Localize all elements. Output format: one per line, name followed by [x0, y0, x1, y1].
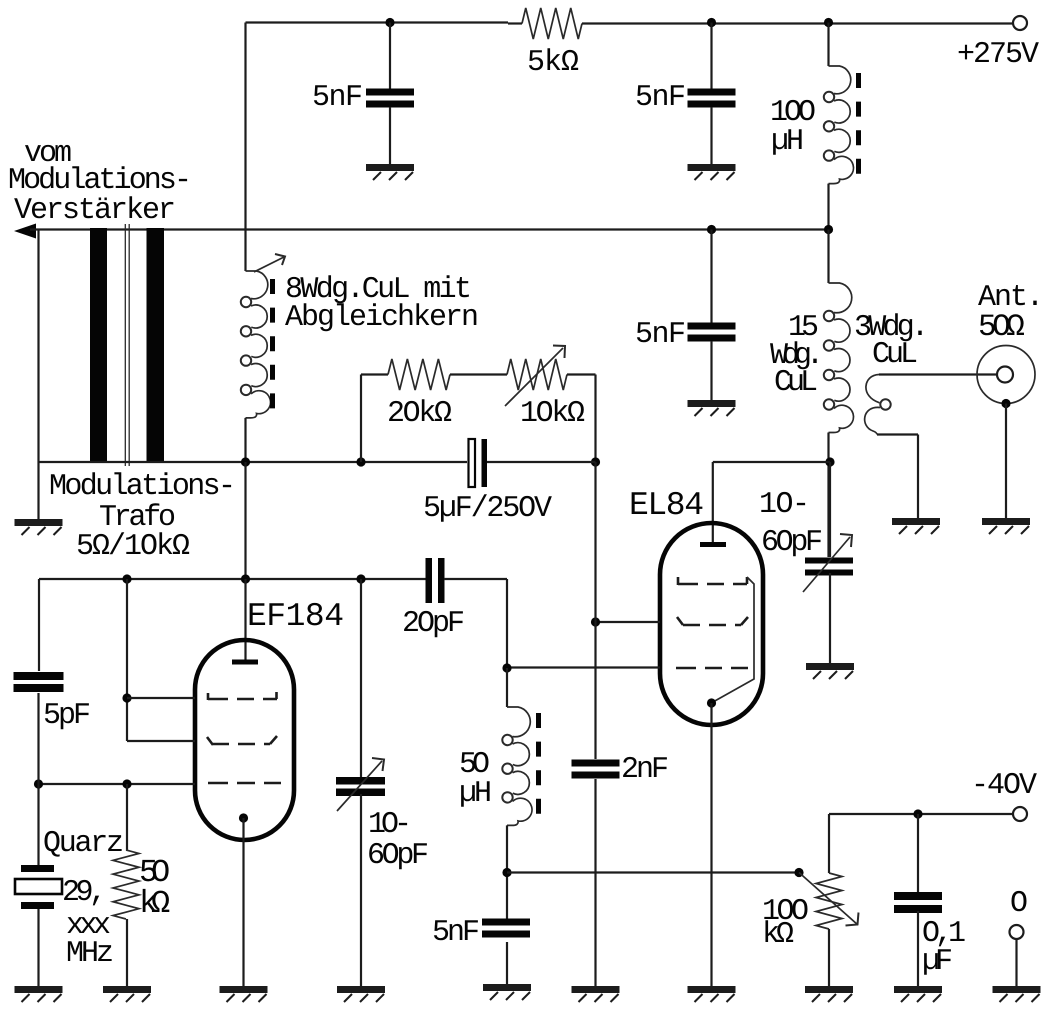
- ground below transformer left: [15, 523, 63, 536]
- capacitor C6 20pF (vertical plates): [426, 558, 433, 603]
- trimmer C8 arrow: [803, 537, 850, 592]
- wire top rail resistor leads: [508, 22, 522, 24]
- ground below C3: [688, 404, 736, 417]
- svg-text:5nF: 5nF: [432, 916, 480, 950]
- ground below C10: [483, 988, 531, 1001]
- EF184 cathode node: [239, 813, 248, 822]
- node junction rail/127: [122, 574, 131, 583]
- svg-text:2OkΩ: 2OkΩ: [387, 397, 452, 431]
- wire 20k left lead: [361, 373, 388, 375]
- svg-text:µF: µF: [922, 945, 953, 979]
- wire trimmer C8 to ground: [829, 573, 831, 666]
- ground below 2nF: [572, 990, 620, 1003]
- capacitor C2 5nF: [688, 89, 736, 96]
- wire EL84 anode up and right: [712, 462, 714, 544]
- wire 15Wdg top lead: [827, 230, 829, 284]
- inductor L2 8Wdg.CuL: [246, 271, 268, 299]
- wire 5nF C2 bottom lead: [710, 107, 712, 166]
- wire transformer line to EF184 anode rail: [244, 462, 246, 579]
- EL84 grid g3 (top dashes with ticks): [678, 577, 747, 585]
- capacitor C11 0.1uF: [894, 892, 942, 900]
- wire EF184 anode down into tube: [244, 579, 246, 660]
- node junction EL84 anode / 15Wdg: [825, 457, 834, 466]
- EL84 cathode node: [707, 698, 716, 707]
- EL84 grid stub g2 line: [507, 666, 660, 668]
- EL84 grid stub g1: [596, 621, 661, 623]
- wire 5nF C2 top lead: [710, 23, 712, 90]
- node junction 10k branch / bottom line: [591, 457, 600, 466]
- transformer TR1 right winding (solid bar): [147, 228, 165, 463]
- inductor L5 50uH: [507, 707, 530, 737]
- terminal 0: [1010, 925, 1024, 939]
- svg-text:µH: µH: [459, 777, 492, 811]
- wire 3Wdg bottom lead: [877, 433, 918, 435]
- EF184 grid stub upper: [127, 697, 195, 699]
- antenna connector inner pin: [997, 367, 1013, 383]
- wire antenna shield to ground: [1005, 404, 1007, 522]
- wire 0 terminal to ground: [1015, 939, 1017, 988]
- resistor R1 5k in top rail: [522, 8, 582, 39]
- node junction 50uH top: [502, 663, 511, 672]
- ground below EF184 cathode: [220, 990, 268, 1003]
- inductor L1 100uH: [829, 66, 851, 94]
- node junction g1/x38: [34, 779, 43, 788]
- svg-text:5kΩ: 5kΩ: [527, 46, 579, 80]
- wire 5nF C10 to ground: [506, 942, 508, 986]
- core of 100uH (dashed): [856, 73, 861, 179]
- wire 50k bottom lead: [126, 919, 128, 988]
- vacuum tube V2 EL84 envelope: [660, 523, 763, 725]
- terminal +275V: [1013, 16, 1027, 30]
- wire 5pF to g1 line: [37, 693, 39, 784]
- svg-text:EL84: EL84: [629, 487, 704, 524]
- wire EL84 cathode down to ground: [710, 703, 712, 988]
- wire wiper line y=872.5: [507, 871, 799, 873]
- trimmer capacitor C8 10-60pF plates: [805, 558, 853, 564]
- svg-text:Abgleichkern: Abgleichkern: [285, 301, 479, 335]
- wire 100uH bottom lead: [827, 184, 829, 230]
- wire 50uH top lead: [506, 668, 508, 707]
- wire 2nF to ground: [594, 779, 596, 988]
- ground below EL84 cathode: [688, 990, 736, 1003]
- node junction x=127 g2 stub: [122, 693, 131, 702]
- wire transformer bottom line y=462: [39, 461, 468, 463]
- capacitor C1 5nF: [366, 89, 414, 96]
- svg-text:+275V: +275V: [957, 38, 1039, 72]
- svg-text:5OΩ: 5OΩ: [978, 310, 1025, 345]
- node junction top rail / 100uH: [824, 18, 833, 27]
- EF184 grid stub lower: [127, 740, 195, 742]
- vacuum tube V1 EF184 envelope: [195, 640, 294, 840]
- antenna connector outer circle: [977, 346, 1035, 404]
- capacitor C9 2nF: [572, 760, 620, 767]
- EF184 anode pin bar: [232, 660, 258, 665]
- resistor R2 20k: [388, 359, 450, 390]
- wire anode rail y=579: [39, 578, 426, 580]
- wire EF184 screen feeds vertical x=127: [126, 579, 128, 741]
- wire 50uH bottom lead: [506, 825, 508, 921]
- svg-text:6OpF: 6OpF: [761, 526, 823, 560]
- svg-text:µH: µH: [771, 125, 804, 159]
- ground below 0 terminal: [993, 990, 1041, 1003]
- ground below 3Wdg: [892, 522, 940, 535]
- potentiometer R3 10k zigzag: [507, 359, 567, 390]
- node junction g1/50k: [122, 779, 131, 788]
- svg-text:1O-: 1O-: [759, 488, 810, 522]
- svg-text:O: O: [1010, 887, 1028, 921]
- ground below C2: [688, 168, 736, 181]
- svg-text:5nF: 5nF: [635, 81, 686, 115]
- EL84 internal beam line: [713, 577, 754, 702]
- svg-text:Modulations-: Modulations-: [8, 164, 192, 198]
- wire 10k right lead to corner: [567, 373, 596, 375]
- ground below trimmer C8: [806, 667, 854, 680]
- svg-text:kΩ: kΩ: [139, 885, 170, 922]
- svg-text:Verstärker: Verstärker: [14, 194, 176, 228]
- svg-text:1O-: 1O-: [368, 808, 412, 842]
- capacitor C3 5nF: [688, 323, 736, 330]
- wire -40V rail: [829, 813, 1013, 815]
- svg-text:5Ω/1OkΩ: 5Ω/1OkΩ: [76, 530, 190, 564]
- wire EF184 cathode to ground: [242, 818, 244, 988]
- svg-text:CuL: CuL: [774, 366, 818, 400]
- wire g1 line y=784: [39, 783, 196, 785]
- wire modulation line y=229: [30, 228, 829, 230]
- trimmer capacitor C7 10-60pF plates: [336, 777, 385, 785]
- node junction g1 stub: [591, 617, 600, 626]
- wire 5uF right lead: [487, 461, 596, 463]
- wire between 20k and 10k pot: [450, 373, 507, 375]
- wire 5nF C3 bottom lead: [710, 341, 712, 402]
- core of 50uH (dashed): [536, 713, 541, 820]
- node junction rail/trimmer C7: [356, 574, 365, 583]
- svg-text:5pF: 5pF: [43, 699, 91, 733]
- svg-text:5nF: 5nF: [312, 81, 363, 115]
- wire 5nF C3 top lead: [710, 230, 712, 324]
- wire x=38 from rail corner down to 5pF: [38, 579, 40, 671]
- node junction -40V/0.1uF: [913, 809, 922, 818]
- wire 100k top lead from -40V rail: [828, 814, 830, 873]
- transformer TR1 left winding (solid bar): [90, 228, 107, 463]
- wire 20k branch vertical: [360, 375, 362, 463]
- wire 50k top lead: [126, 784, 128, 850]
- wire trimmer C7 to ground: [360, 794, 362, 988]
- wire 0.1uF top lead: [917, 814, 919, 892]
- wire left vertical x=38 from arrow line to ground: [37, 230, 39, 522]
- terminal -40V: [1013, 807, 1027, 821]
- adjustment arrow on 8Wdg core: [254, 257, 284, 272]
- wire 5nF C1 bottom lead: [389, 107, 391, 166]
- wire g1 line down to quartz: [37, 784, 39, 865]
- svg-text:6OpF: 6OpF: [367, 839, 429, 873]
- EF184 grid g3 (middle dashes slant ticks): [207, 736, 277, 745]
- wire 5nF C1 top lead: [389, 23, 391, 90]
- potentiometer R5 100k zigzag: [816, 873, 842, 929]
- capacitor C4 5uF/250V left plate (hollow): [469, 439, 476, 487]
- node junction top rail / 5nF C1: [385, 18, 394, 27]
- node junction 50uH bottom / wiper line: [502, 868, 511, 877]
- svg-text:2OpF: 2OpF: [402, 607, 465, 641]
- wire quartz to ground: [37, 909, 39, 988]
- node junction wiper/pot arrow: [794, 868, 803, 877]
- trimmer C7 arrow: [337, 761, 382, 811]
- svg-text:Modulations-: Modulations-: [49, 470, 236, 504]
- wire trimmer C7 top lead: [360, 579, 362, 777]
- svg-text:2nF: 2nF: [621, 753, 669, 787]
- ground below antenna: [982, 522, 1030, 535]
- EF184 grid g1 (bottom dashes): [208, 782, 281, 785]
- svg-text:MHz: MHz: [66, 937, 114, 971]
- inductor L3 15Wdg.CuL: [829, 283, 852, 313]
- wire 15Wdg bottom lead: [827, 433, 829, 558]
- capacitor C10 5nF bottom: [482, 919, 530, 926]
- quartz crystal Q1 body: [15, 879, 62, 894]
- wire 0.1uF to ground: [917, 911, 919, 988]
- wire +275V top rail left segment: [246, 21, 509, 23]
- wire 100k bottom lead: [828, 929, 830, 988]
- svg-text:-4OV: -4OV: [971, 769, 1037, 803]
- inductor L4 3Wdg.CuL secondary: [866, 375, 880, 403]
- EF184 grid g2 (top dashes with ticks): [208, 692, 277, 700]
- ground below trimmer C7: [337, 990, 385, 1003]
- input arrow from Modulationsverstaerker: [14, 224, 36, 239]
- node junction modulation line / 100uH-15Wdg: [824, 225, 833, 234]
- svg-text:29,: 29,: [62, 876, 107, 910]
- ground below 0.1uF: [894, 990, 942, 1003]
- wire 8Wdg bottom to transformer bottom line: [244, 418, 246, 462]
- ground below C1: [366, 168, 414, 181]
- node junction modulation line / 5nF C3: [707, 225, 716, 234]
- svg-text:kΩ: kΩ: [762, 918, 794, 952]
- core of 8Wdg coil (dashed): [270, 279, 275, 412]
- potentiometer R5 100k arrow: [799, 873, 858, 926]
- potentiometer R3 10k arrow: [505, 348, 563, 406]
- svg-text:EF184: EF184: [247, 598, 344, 635]
- ground below quartz: [15, 990, 63, 1003]
- svg-text:5µF/25OV: 5µF/25OV: [423, 492, 552, 526]
- svg-text:CuL: CuL: [872, 338, 918, 372]
- EL84 anode pin bar: [700, 542, 726, 547]
- svg-text:1OkΩ: 1OkΩ: [520, 397, 585, 431]
- resistor R4 50k (vertical): [113, 850, 139, 919]
- node junction rail/EF184 anode: [241, 574, 250, 583]
- EL84 grid g1 (bottom dashes): [676, 667, 748, 670]
- transformer TR1 core lines: [124, 224, 126, 466]
- wire from top rail down to 8Wdg coil: [244, 23, 246, 272]
- node junction top rail / 5nF C2: [707, 18, 716, 27]
- ground below 100k: [805, 990, 853, 1003]
- wire 100uH top lead: [827, 23, 829, 67]
- wire grid feed vertical x=595: [594, 462, 596, 759]
- wire 20pF right lead and corner down: [444, 578, 507, 580]
- EL84 grid g2 (middle dashes slant ticks): [677, 617, 748, 625]
- wire 3Wdg top to antenna: [879, 373, 997, 375]
- ground below 50k: [103, 990, 151, 1003]
- node junction bottom line / 20k branch: [356, 457, 365, 466]
- svg-text:5nF: 5nF: [635, 318, 686, 352]
- quartz crystal Q1 top plate: [21, 865, 54, 872]
- capacitor C4 5uF/250V right plate (solid): [482, 439, 488, 487]
- wire 15Wdg junction down to trimmer C8: [829, 462, 831, 557]
- capacitor C5 5pF: [14, 672, 64, 680]
- node junction 8Wdg / bottom line: [241, 457, 250, 466]
- quartz crystal Q1 bottom plate: [21, 902, 54, 909]
- node junction antenna shield: [1001, 399, 1010, 408]
- svg-text:Quarz: Quarz: [43, 827, 124, 861]
